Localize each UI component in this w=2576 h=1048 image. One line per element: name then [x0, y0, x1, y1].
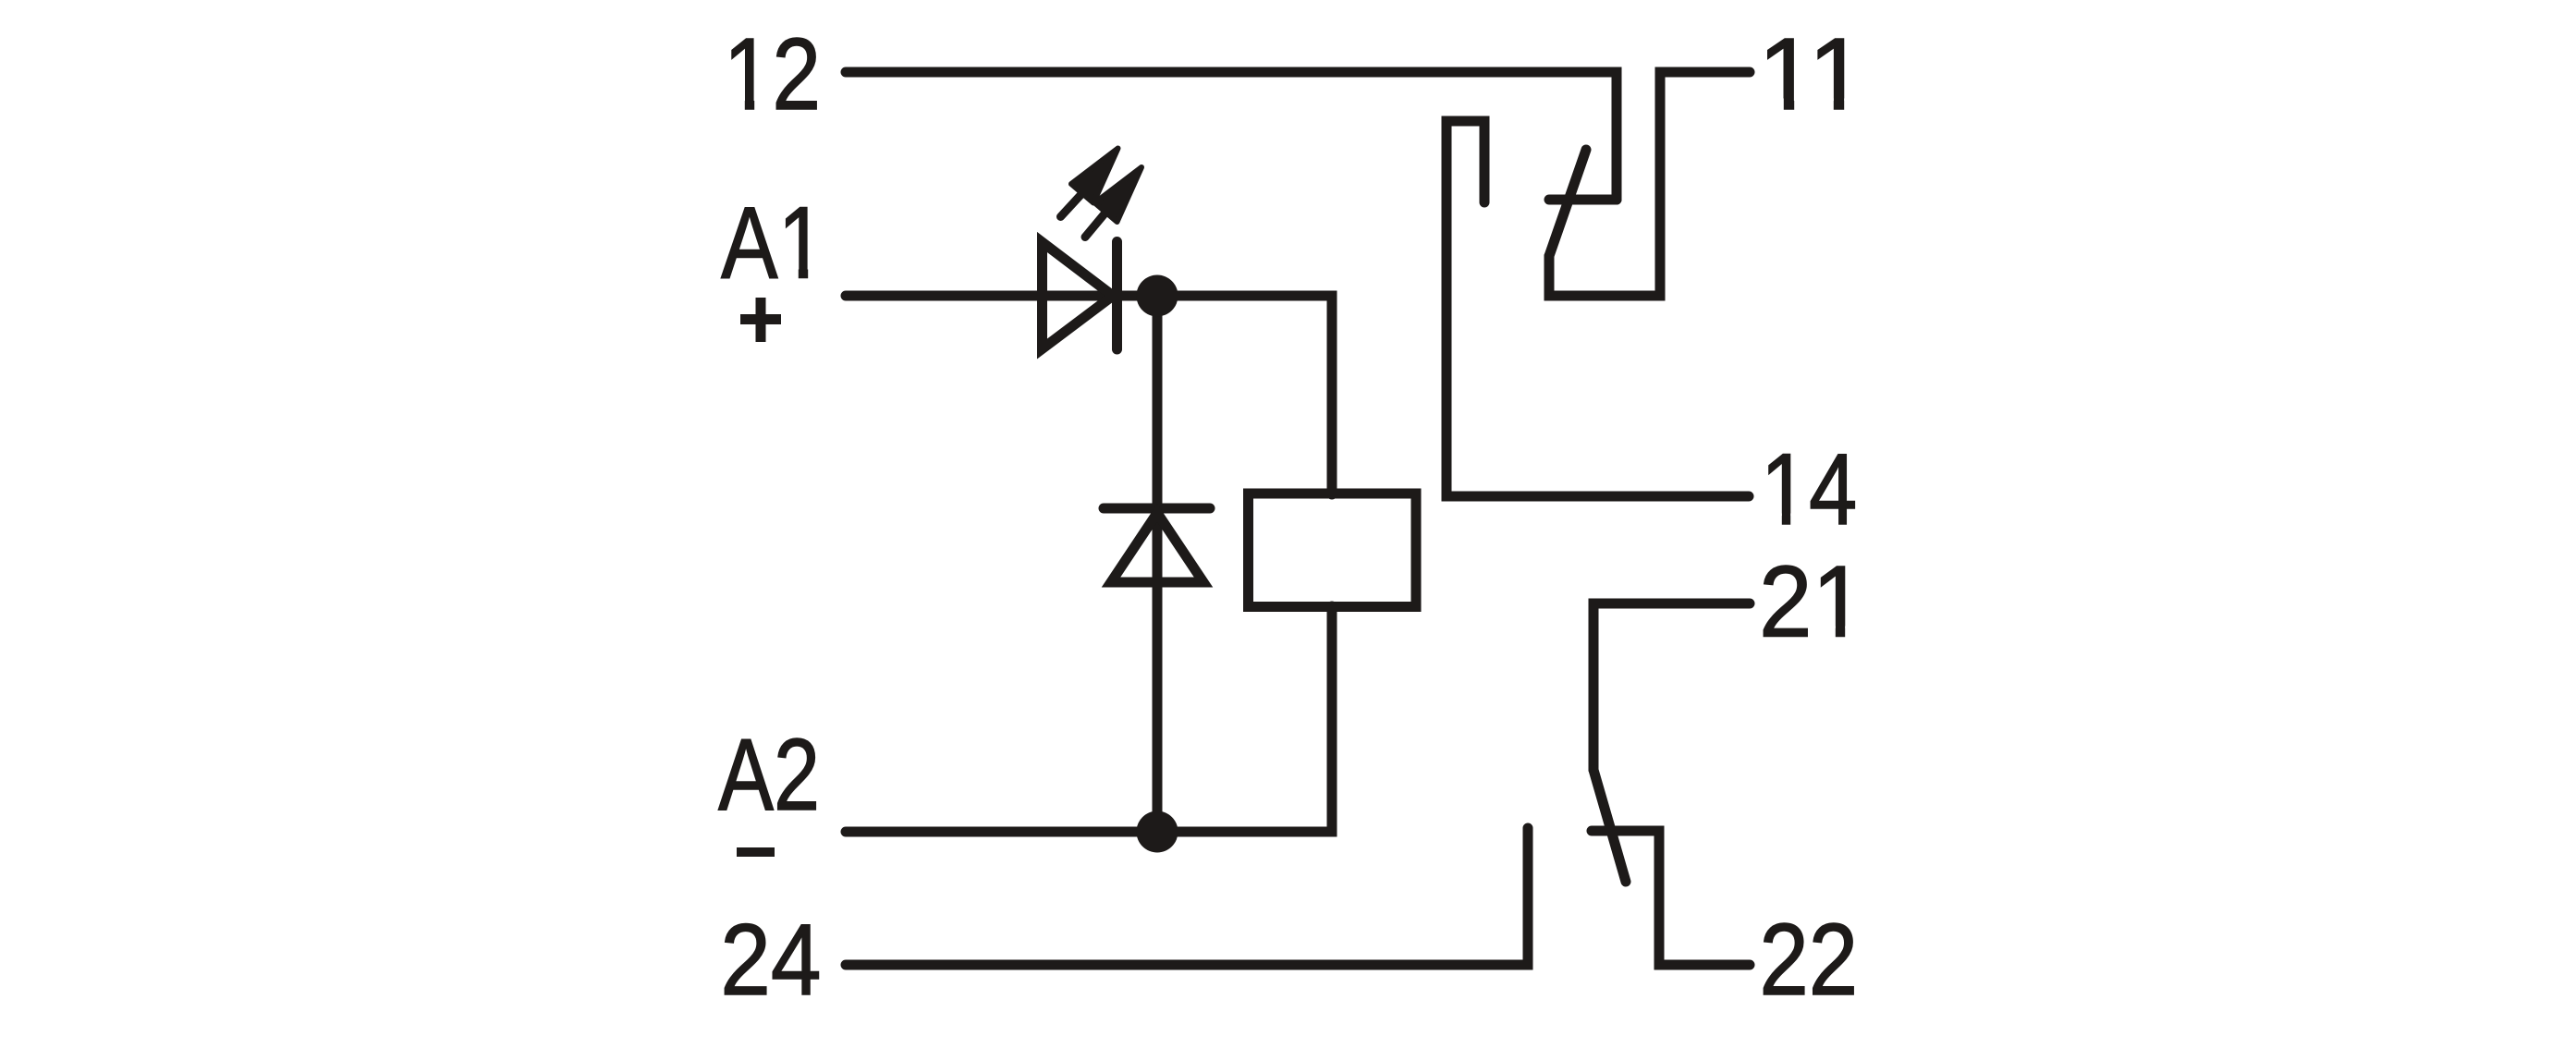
relay contact blade pole 2 — [1593, 770, 1626, 882]
LED arrow 2 head — [1095, 167, 1142, 222]
contact seat 22 and wire 22 of pole 2 — [1592, 831, 1750, 965]
svg-text:22: 22 — [1759, 903, 1858, 1017]
contact seat 12 (NC seat bar) — [1549, 195, 1617, 205]
flyback diode D2 cathode bar — [1104, 504, 1210, 514]
svg-text:12: 12 — [724, 17, 821, 130]
svg-text:A1: A1 — [721, 186, 825, 299]
LED D1 cathode bar — [1112, 242, 1122, 350]
white foot-serif masks for digit 1 glyphs — [727, 99, 1863, 640]
svg-text:11: 11 — [1758, 17, 1866, 130]
LED D1 triangle — [1043, 242, 1114, 349]
wire 21 common path of pole 2 — [1593, 603, 1750, 770]
relay contact blade pole 1 — [1549, 150, 1586, 256]
LED arrow 1 head — [1071, 149, 1118, 203]
wire 14 with NO stub of pole 1 — [1447, 121, 1749, 496]
junction node A2/diode — [1137, 811, 1178, 853]
wire vertical junction to junction through flyback diode — [1153, 296, 1163, 832]
svg-text:14: 14 — [1761, 432, 1858, 546]
svg-text:A2: A2 — [718, 718, 820, 832]
polarity label minus — [737, 847, 775, 857]
relay coil K1 — [1249, 494, 1417, 607]
LED arrow 1 shaft — [1061, 193, 1083, 217]
wire 24 with NO stub of pole 2 — [846, 828, 1528, 965]
LED arrow 2 shaft — [1085, 213, 1106, 238]
wire A1 to coil top — [846, 296, 1332, 494]
svg-text:21: 21 — [1759, 544, 1865, 659]
junction node A1/LED — [1137, 275, 1178, 317]
wire A2 to coil bottom — [846, 606, 1332, 832]
svg-text:24: 24 — [720, 904, 821, 1017]
flyback diode D2 triangle — [1111, 513, 1203, 582]
wire 12 terminal to NC contact drop of pole 1 — [846, 72, 1617, 200]
wire 11 common path of pole 1 — [1549, 72, 1750, 296]
polarity label plus — [740, 298, 781, 342]
